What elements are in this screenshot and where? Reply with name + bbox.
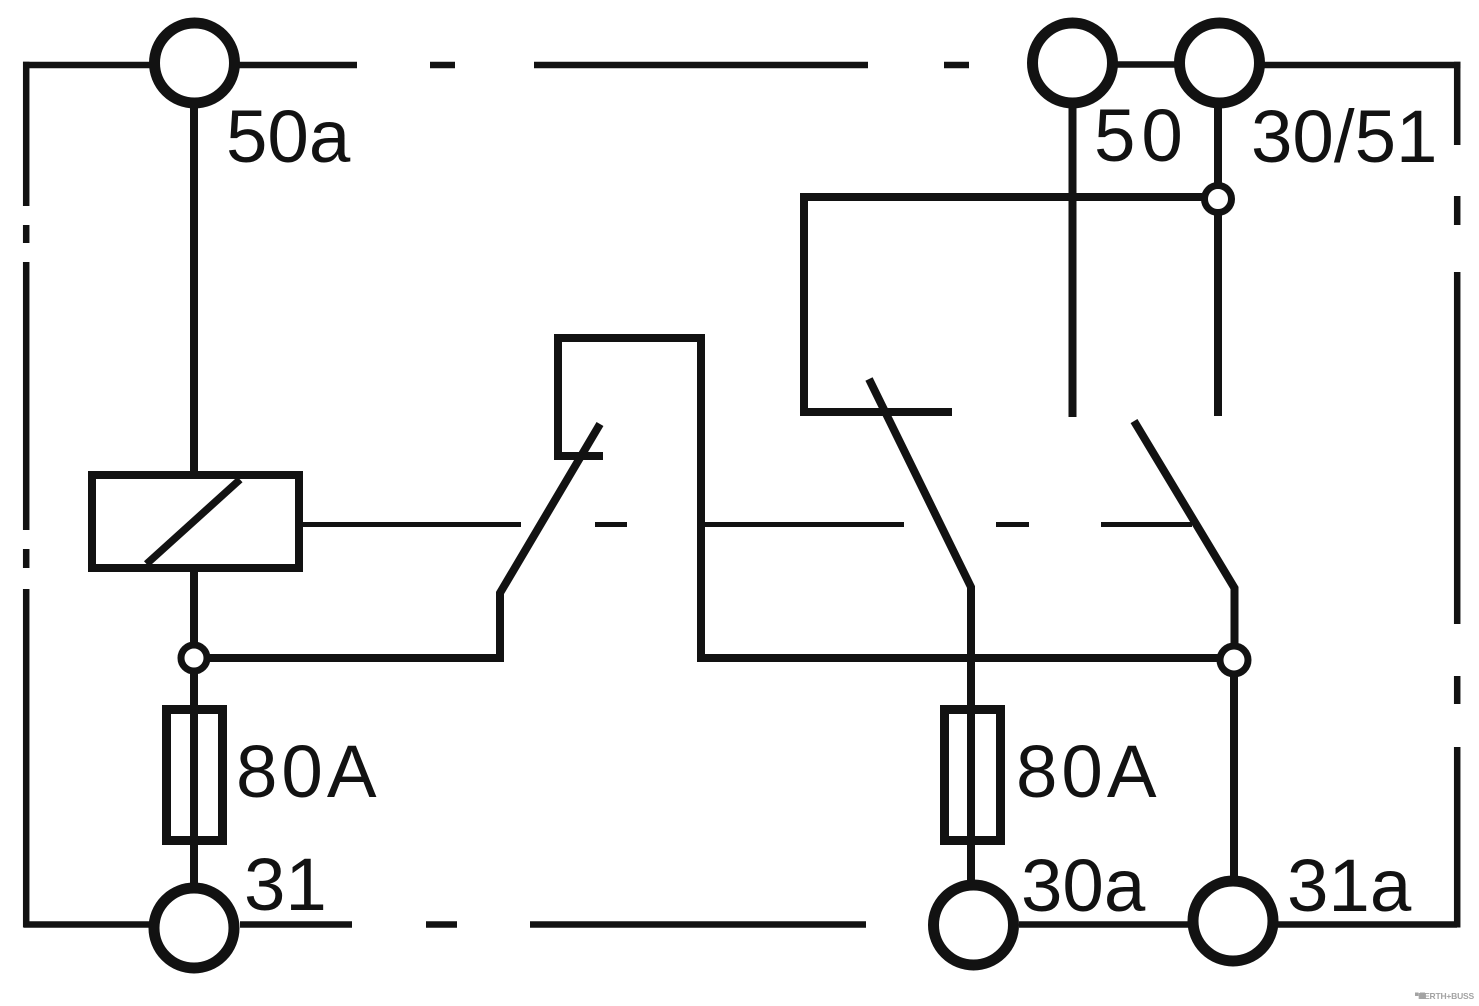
svg-text:80A: 80A	[1016, 730, 1161, 813]
svg-text:80A: 80A	[236, 730, 381, 813]
svg-text:HERTH+BUSS: HERTH+BUSS	[1418, 991, 1474, 1001]
svg-text:30/51: 30/51	[1251, 95, 1437, 178]
svg-text:50: 50	[1094, 94, 1189, 177]
svg-text:50a: 50a	[226, 95, 351, 178]
svg-text:31a: 31a	[1287, 844, 1412, 927]
svg-text:30a: 30a	[1021, 844, 1146, 927]
svg-text:31: 31	[244, 843, 327, 926]
